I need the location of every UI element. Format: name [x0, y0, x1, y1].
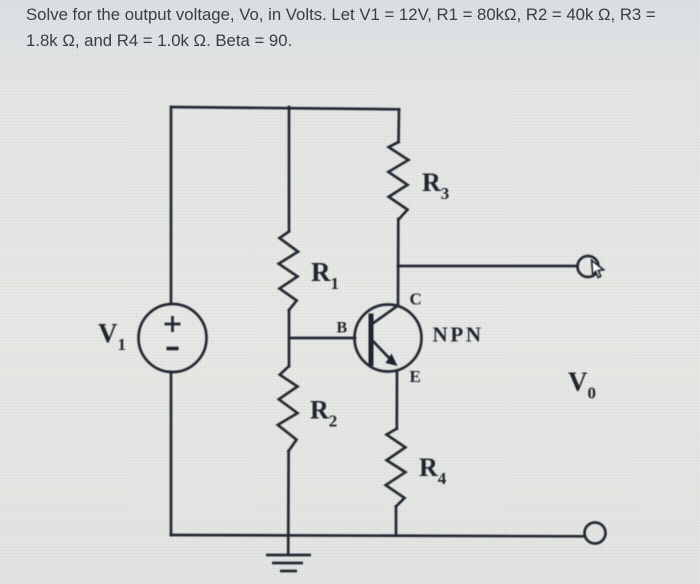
svg-text:R4: R4 [419, 453, 447, 488]
svg-text:V0: V0 [568, 367, 596, 403]
svg-text:NPN: NPN [433, 323, 484, 347]
svg-text:C: C [410, 290, 422, 309]
svg-text:V1: V1 [98, 318, 126, 354]
svg-text:E: E [410, 367, 421, 386]
svg-text:R2: R2 [310, 396, 337, 431]
svg-text:B: B [337, 320, 348, 337]
svg-text:R1: R1 [311, 257, 339, 293]
svg-text:R3: R3 [422, 168, 449, 203]
